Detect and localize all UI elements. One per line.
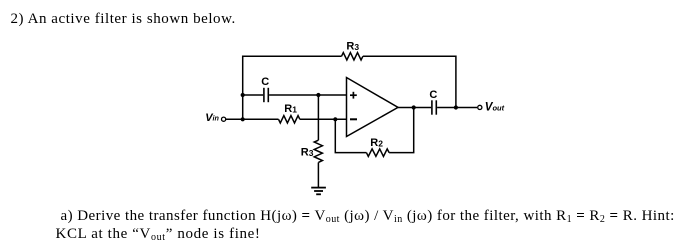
wire: resistor R3 to ground	[317, 162, 319, 187]
capacitor C (output, right plate)	[435, 100, 437, 114]
terminal Vin	[222, 117, 226, 121]
capacitor C (input, left plate)	[263, 88, 265, 102]
junction node B (plus input / R3)	[316, 93, 320, 97]
wire: output capacitor to Vout terminal	[437, 107, 477, 109]
junction node A (Vin / R1)	[241, 117, 245, 121]
wire: Vin to node A	[226, 118, 243, 120]
wire: top feedback right	[363, 56, 456, 107]
problem statement line	[11, 12, 236, 27]
svg-text:R2: R2	[370, 137, 383, 149]
junction node minus input / R2	[333, 117, 337, 121]
op-amp plus marker	[350, 92, 357, 99]
svg-text:Vin: Vin	[205, 112, 219, 124]
resistor R2	[366, 149, 389, 157]
wire: op-amp output	[398, 107, 431, 109]
wire: capacitor C to op-amp plus input	[269, 94, 346, 96]
junction output node / R2	[412, 105, 416, 109]
wire: node B down to resistor R3 (grounded)	[317, 95, 319, 140]
capacitor C (output, left plate)	[431, 100, 433, 114]
ground	[311, 188, 326, 195]
resistor R3 (top feedback)	[342, 53, 363, 60]
question a) line 2	[56, 227, 261, 242]
resistor R3 (to ground, vertical)	[314, 140, 322, 162]
op-amp U1	[347, 78, 399, 137]
wire: R2 up to output node	[389, 108, 414, 153]
junction output node / R3 feedback	[454, 105, 458, 109]
svg-text:C: C	[429, 89, 437, 101]
wire: node A up branch to capacitor C	[243, 94, 263, 96]
terminal Vout	[478, 105, 482, 109]
wire: R1 to op-amp minus input	[300, 118, 347, 120]
resistor R1	[279, 116, 300, 123]
wire: top feedback line	[243, 56, 342, 119]
svg-text:R1: R1	[284, 103, 297, 115]
junction node A upper (C branch)	[241, 93, 245, 97]
capacitor C (input, right plate)	[267, 88, 269, 102]
wire: R1 branch left	[243, 118, 279, 120]
op-amp minus marker	[350, 118, 357, 120]
svg-text:R3: R3	[301, 146, 314, 158]
question a) line 1	[61, 209, 675, 224]
svg-text:R3: R3	[346, 40, 359, 52]
wire: minus node down to R2	[335, 119, 366, 152]
svg-text:C: C	[261, 76, 269, 88]
svg-text:Vout: Vout	[485, 102, 505, 114]
